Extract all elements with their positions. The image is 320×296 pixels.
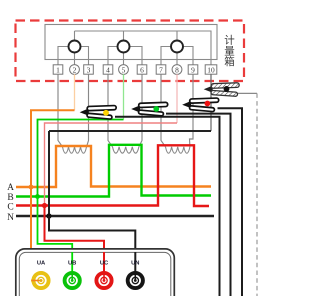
wire C bus to UC jack <box>45 206 105 281</box>
CT2 secondary winding <box>113 147 139 153</box>
test lead from clip C to tester <box>218 108 243 296</box>
svg-text:箱: 箱 <box>224 55 235 68</box>
wire t7 to CT3 secondary <box>161 74 166 147</box>
voltage lead N riser <box>48 131 50 216</box>
wire B bus to UB jack <box>38 197 73 281</box>
neutral bus N <box>16 215 214 217</box>
svg-text:2: 2 <box>73 66 77 75</box>
wire UA stub over panel <box>31 280 41 282</box>
terminal 3 <box>84 65 94 75</box>
wire t3 to CT1 secondary <box>87 74 89 147</box>
terminal 6 <box>137 65 147 75</box>
test lead from clip B to tester <box>166 114 231 296</box>
wire UN stub over panel <box>134 252 136 281</box>
svg-text:量: 量 <box>224 46 235 58</box>
meter element 3 wiring <box>161 31 193 65</box>
wire from neutral link <box>237 92 257 94</box>
svg-text:8: 8 <box>175 66 179 75</box>
svg-text:3: 3 <box>87 66 91 75</box>
meter internal neutral rail <box>75 31 212 65</box>
terminal 2 <box>70 65 80 75</box>
wire t9 to CT3 secondary <box>190 74 194 147</box>
wire N bus to UN jack <box>49 216 135 281</box>
junction B <box>35 194 40 199</box>
svg-text:UN: UN <box>131 261 139 267</box>
terminal 4 <box>103 65 113 75</box>
wire t1 to CT1 secondary <box>58 74 63 147</box>
terminal 8 <box>172 65 182 75</box>
svg-text:5: 5 <box>122 66 126 75</box>
tester panel <box>16 249 175 296</box>
label 计量箱 <box>224 34 235 69</box>
metering box dashed enclosure <box>16 21 245 82</box>
meter M1 case <box>45 25 217 60</box>
phase B bus through CT2 primary <box>16 145 211 197</box>
voltage lead N horizontal to link <box>49 130 211 132</box>
jack UN <box>128 272 143 289</box>
voltage lead B horizontal to UB riser <box>38 120 124 197</box>
phase A bus through CT1 primary <box>16 146 211 187</box>
svg-text:UB: UB <box>68 261 76 267</box>
svg-text:B: B <box>7 193 13 203</box>
wire A bus to UA jack <box>31 187 41 281</box>
svg-text:6: 6 <box>140 66 144 75</box>
jack UB <box>65 272 80 289</box>
junction N <box>46 213 51 218</box>
voltage lead A horizontal to UA riser <box>31 110 75 187</box>
junction A <box>29 185 34 190</box>
test clip A (yellow) <box>80 105 117 119</box>
terminal 10 <box>205 65 217 75</box>
voltage lead A from terminal 2 <box>74 74 76 110</box>
svg-text:7: 7 <box>159 66 163 75</box>
test lead from clip A to tester <box>115 117 220 296</box>
svg-text:A: A <box>7 183 14 193</box>
CT3 secondary winding <box>166 147 190 153</box>
junction C <box>42 203 47 208</box>
neutral link (hatched) <box>204 83 240 97</box>
wire UC stub over panel <box>103 252 105 281</box>
svg-text:N: N <box>7 213 14 223</box>
meter element 2 wiring <box>108 31 142 65</box>
svg-text:UA: UA <box>37 261 46 267</box>
terminal 7 <box>156 65 166 75</box>
svg-text:1: 1 <box>56 66 60 75</box>
test clip C (red) <box>182 98 219 112</box>
dashed neutral return <box>256 93 258 296</box>
svg-text:计: 计 <box>224 34 235 47</box>
CT1 secondary winding <box>63 147 87 153</box>
wire t10 to neutral link <box>210 74 212 131</box>
wire UB stub over panel <box>71 252 73 281</box>
voltage lead C from terminal 8 <box>176 74 178 123</box>
test clip B (green) <box>131 102 168 116</box>
svg-text:4: 4 <box>106 66 110 75</box>
jack UC <box>96 272 111 289</box>
wire t6 to CT2 secondary <box>139 74 142 147</box>
tester panel inner border <box>19 252 171 296</box>
voltage lead B from terminal 5 <box>123 74 125 119</box>
svg-text:9: 9 <box>191 66 195 75</box>
svg-text:C: C <box>7 203 13 213</box>
wire t4 to CT2 secondary <box>108 74 113 147</box>
svg-text:UC: UC <box>100 261 109 267</box>
meter element 3 coil U3 <box>171 41 183 53</box>
voltage lead C horizontal to UC riser <box>45 123 178 206</box>
jack UA <box>32 273 49 288</box>
svg-text:10: 10 <box>207 66 215 75</box>
meter element 1 wiring <box>58 31 89 65</box>
terminal 9 <box>188 65 198 75</box>
meter element 1 coil U1 <box>69 41 81 53</box>
terminal 1 <box>53 65 63 75</box>
terminal 5 <box>119 65 129 75</box>
phase C bus through CT3 primary <box>16 145 209 206</box>
meter element 2 coil U2 <box>118 41 130 53</box>
